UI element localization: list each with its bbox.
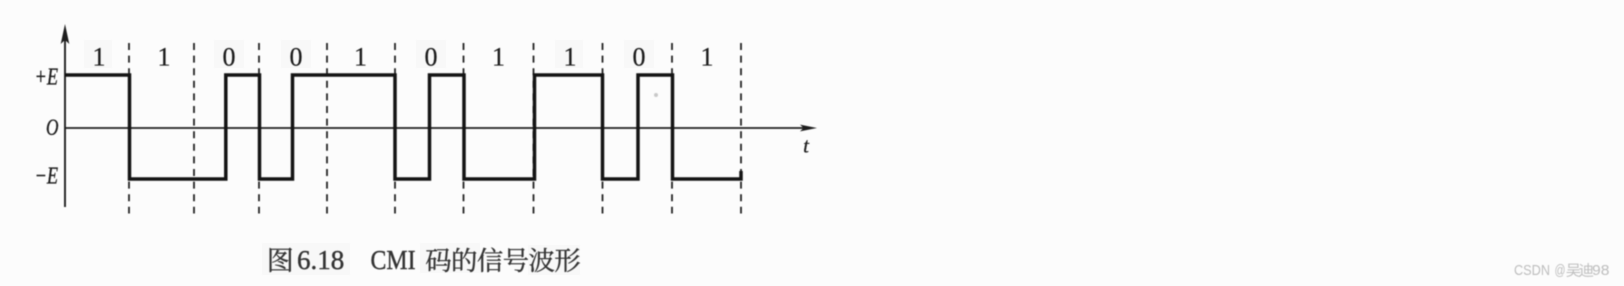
svg-text:0: 0 [425,43,438,72]
bit boundary dashed line 9 [671,43,673,214]
horizontal axis (time axis, O level) [65,125,817,132]
watermark hanzi 迪 [1579,263,1593,277]
bit boundary dashed line 5 [394,43,396,214]
svg-text:98: 98 [1592,263,1609,279]
bit boundary dashed line 7 [533,43,535,214]
vertical axis (amplitude axis) [61,24,70,207]
bit boundary dashed line 1 [128,43,130,214]
bit boundary dashed line 4 [326,43,328,214]
svg-text:CSDN: CSDN [1514,263,1550,279]
svg-text:1: 1 [354,43,367,72]
scan speck [654,93,658,97]
bit boundary dashed line 8 [602,43,604,214]
caption hanzi 信 [478,248,503,273]
svg-text:0: 0 [290,43,303,72]
svg-text:CMI: CMI [371,244,416,275]
caption hanzi 图 [270,248,292,272]
svg-text:@: @ [1555,263,1566,279]
svg-text:6.18: 6.18 [297,245,344,275]
svg-text:−E: −E [35,164,59,190]
bit boundary dashed line 10 [740,43,742,214]
caption hanzi 码 [426,248,451,272]
svg-text:1: 1 [158,43,171,72]
svg-text:1: 1 [564,43,577,72]
svg-text:1: 1 [93,43,106,72]
svg-text:0: 0 [633,43,646,72]
svg-text:O: O [46,115,59,140]
bit boundary dashed line 6 [463,43,465,214]
faint scan artifact patches [84,40,654,275]
caption hanzi 形 [555,248,580,272]
caption hanzi 波 [529,248,554,272]
bit boundary dashed line 3 [258,43,260,214]
svg-text:1: 1 [701,43,714,72]
watermark hanzi 吴 [1566,264,1580,277]
watermark CSDN @吴迪98 [1514,263,1609,279]
caption hanzi 的 [453,248,476,272]
svg-text:+E: +E [35,65,59,91]
caption: 图 6.18 CMI 码的信号波形 [270,244,580,275]
svg-text:1: 1 [492,43,505,72]
caption hanzi 号 [504,248,528,272]
bit boundary dashed line 2 [193,43,195,214]
svg-text:0: 0 [223,43,236,72]
CMI waveform trace [65,75,741,179]
svg-text:t: t [803,134,810,158]
